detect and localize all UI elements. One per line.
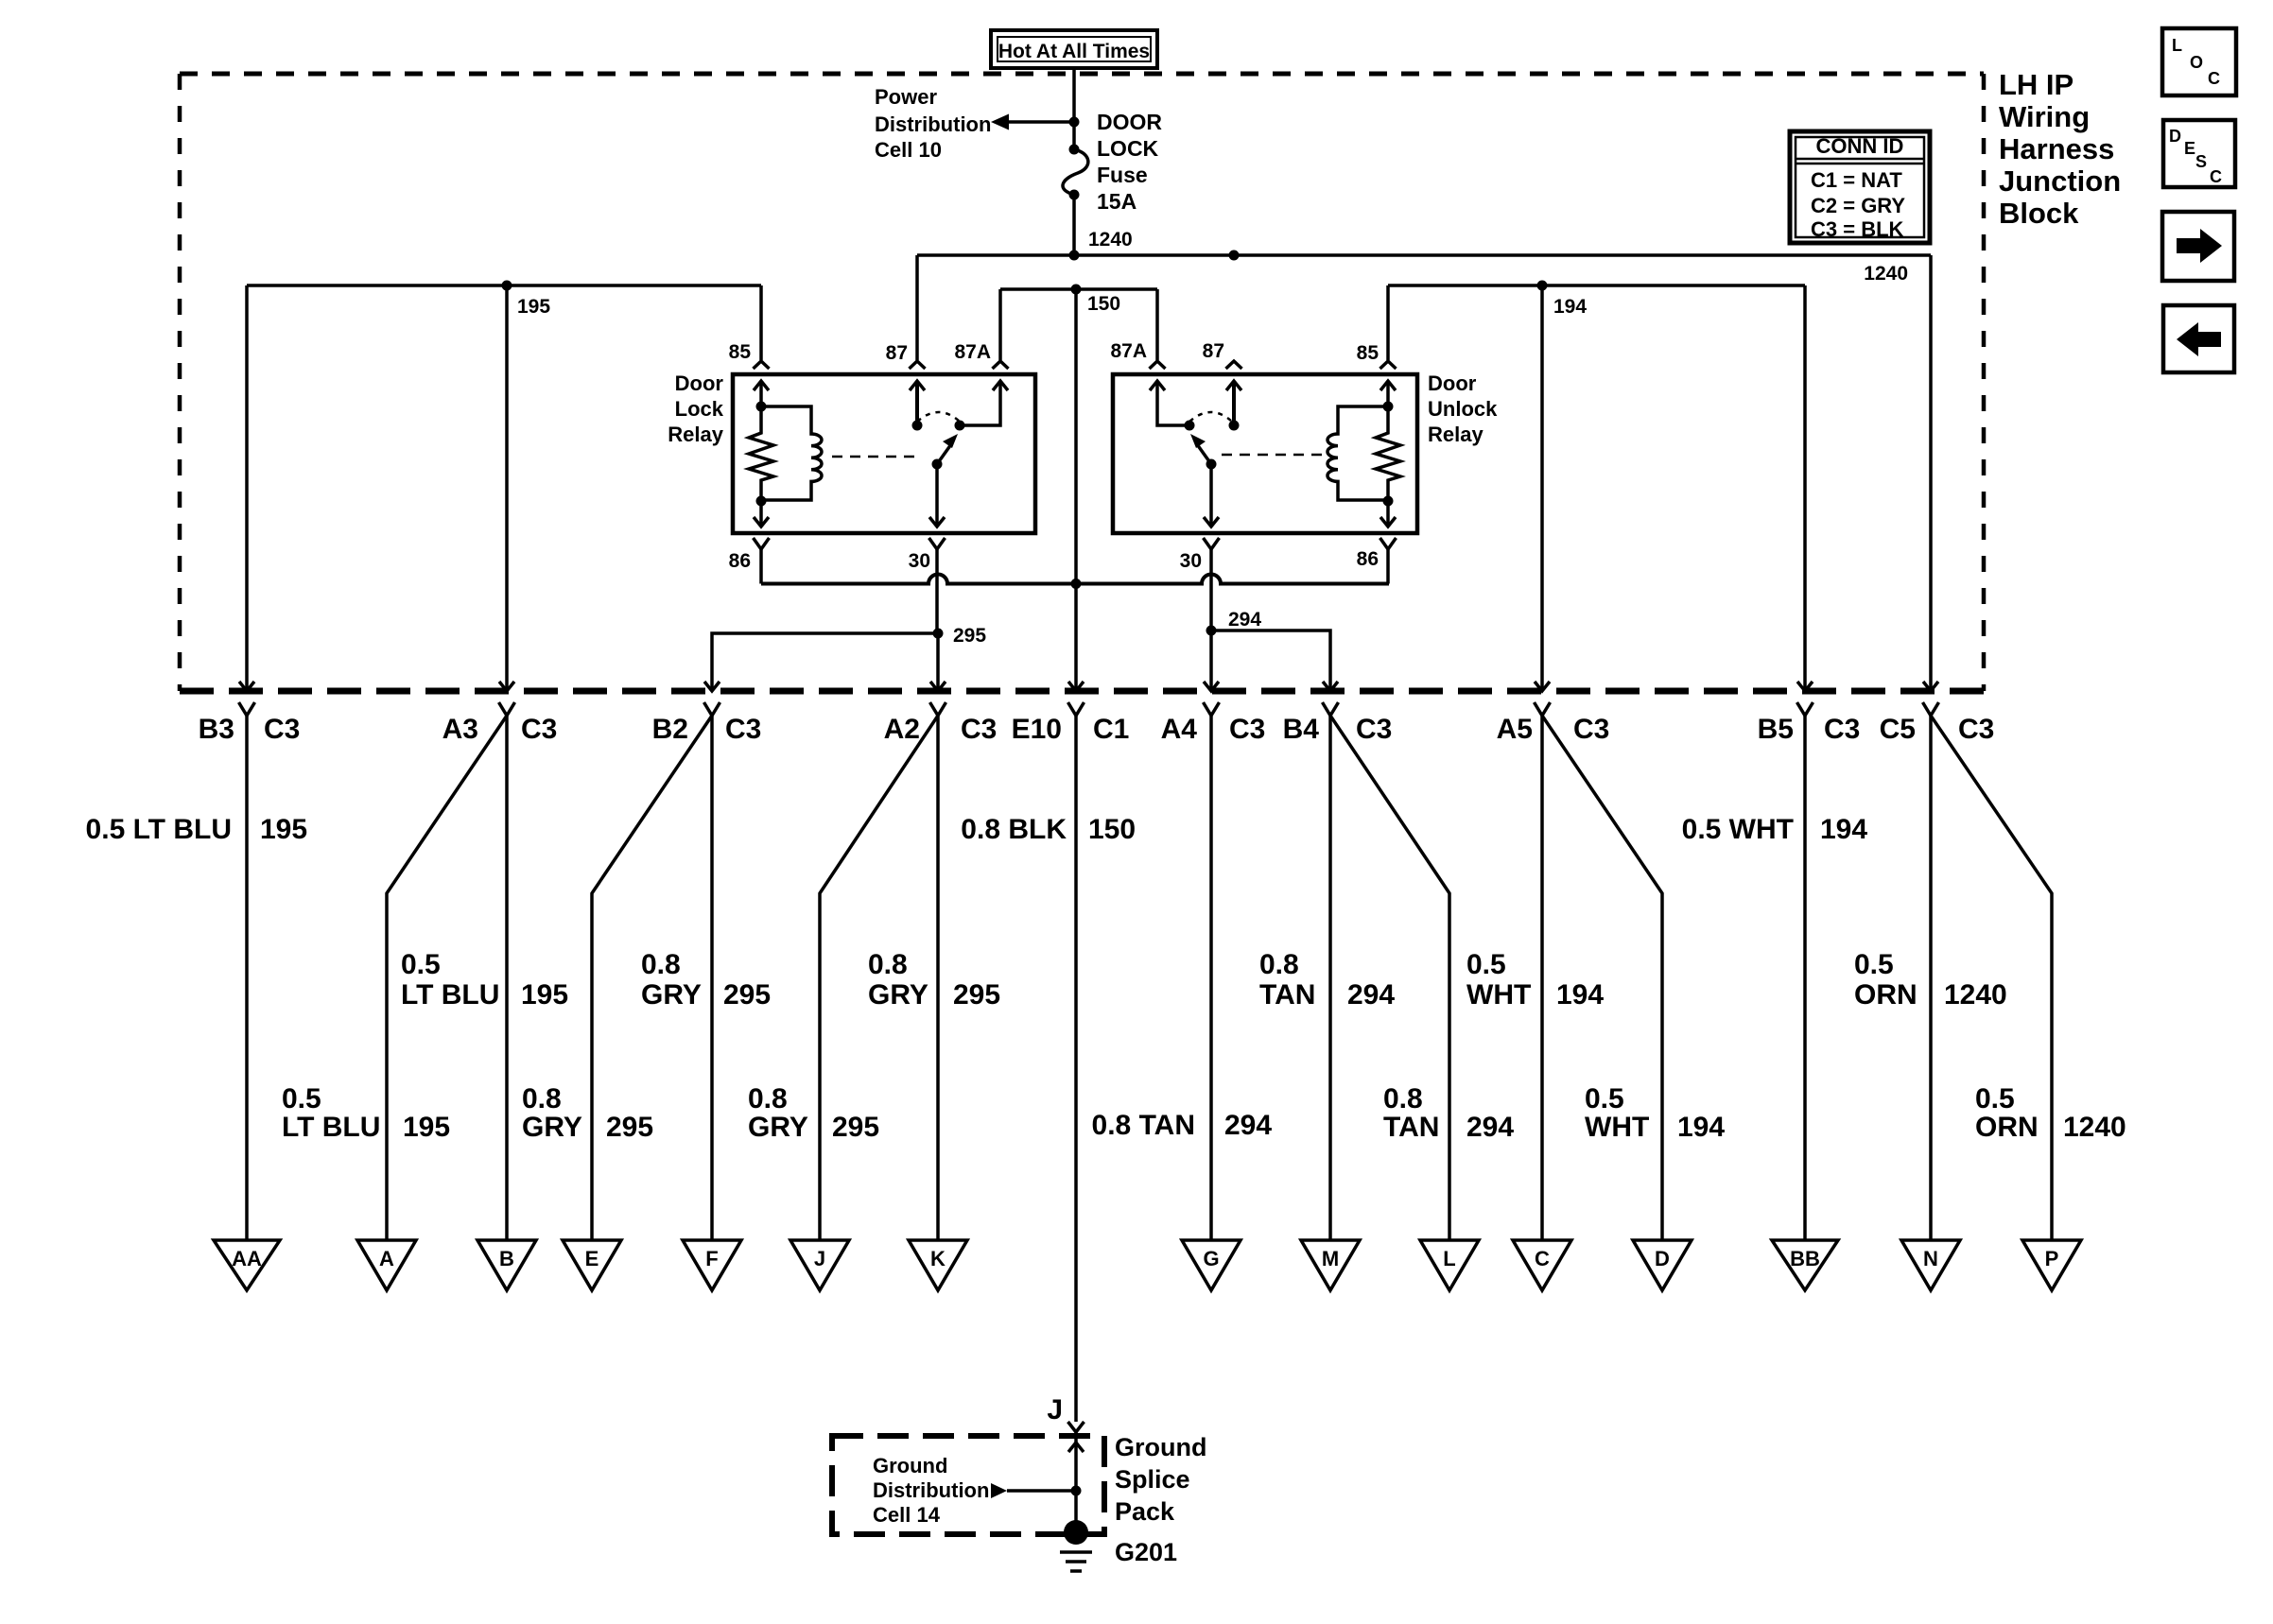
wire from Hot At All Times to fuse	[1072, 68, 1076, 149]
svg-text:A2: A2	[884, 714, 920, 745]
label wire 0.5 WHT 194 at triangle C wire	[1466, 949, 1604, 1011]
inductor unlock relay coil	[1327, 406, 1388, 500]
svg-text:C3: C3	[1356, 714, 1392, 745]
svg-text:87: 87	[1203, 340, 1224, 362]
svg-text:30: 30	[1180, 550, 1202, 572]
svg-text:C1: C1	[1093, 714, 1129, 745]
pin 30 lock relay fork	[929, 538, 946, 549]
destination triangle N	[1901, 1240, 1960, 1290]
wire 194 right drop to connector B5	[1803, 285, 1807, 691]
svg-text:AA: AA	[232, 1247, 262, 1270]
connector pin B5 fork	[1797, 702, 1813, 716]
wire 295 horizontal to connector B2	[712, 633, 938, 691]
pin 87A lock relay connector chevron	[993, 361, 1009, 369]
svg-text:0.8: 0.8	[748, 1083, 788, 1114]
pin 87 unlock relay connector chevron	[1226, 361, 1242, 369]
label wire 0.5 LT BLU 195 at triangle A wire	[282, 1083, 450, 1143]
arrow to Power Distribution Cell 10	[991, 114, 1074, 130]
junction block dashed border - left	[178, 74, 182, 691]
pin 30 lock relay internal arrow	[929, 464, 945, 527]
pin 87 lock relay connector chevron	[910, 361, 926, 369]
svg-text:DOOR: DOOR	[1097, 110, 1162, 134]
svg-text:0.8: 0.8	[1259, 949, 1299, 980]
svg-text:C3: C3	[1824, 714, 1860, 745]
svg-text:0.5: 0.5	[1975, 1083, 2015, 1114]
svg-text:G: G	[1203, 1247, 1219, 1270]
svg-text:194: 194	[1556, 979, 1604, 1011]
wire A2 straight to triangle K	[936, 716, 940, 1240]
svg-text:ORN: ORN	[1975, 1112, 2039, 1143]
svg-text:Cell 14: Cell 14	[873, 1503, 941, 1527]
svg-text:0.8 TAN: 0.8 TAN	[1092, 1110, 1195, 1141]
wire splice 295 down to connector A2	[936, 633, 940, 691]
svg-text:294: 294	[1466, 1112, 1514, 1143]
pin 86 lock relay fork	[754, 538, 770, 549]
svg-text:194: 194	[1553, 296, 1587, 318]
svg-text:C: C	[1535, 1247, 1550, 1270]
svg-text:0.8 BLK: 0.8 BLK	[961, 814, 1067, 845]
svg-text:295: 295	[953, 979, 1000, 1011]
arrow from Ground Distribution Cell 14	[991, 1483, 1076, 1498]
inductor lock relay coil	[761, 406, 822, 500]
ground G201 symbol	[1060, 1520, 1092, 1571]
label wire 0.8 GRY 295 at triangle F wire	[641, 949, 771, 1011]
svg-text:LOCK: LOCK	[1097, 136, 1159, 161]
svg-text:0.8: 0.8	[1383, 1083, 1423, 1114]
svg-text:30: 30	[909, 550, 930, 572]
svg-text:G201: G201	[1115, 1538, 1177, 1566]
label wire 0.8 GRY 295 at triangle K wire	[868, 949, 1000, 1011]
label wire 0.8 GRY 295 at triangle E wire	[522, 1083, 653, 1143]
svg-text:L: L	[2172, 36, 2182, 55]
wire lock pin30 down to splice 295	[935, 549, 939, 633]
svg-text:GRY: GRY	[748, 1112, 808, 1143]
connector pin B2 fork	[704, 702, 720, 716]
label Door Lock Relay	[668, 371, 723, 446]
LOC legend box	[2162, 28, 2236, 95]
connector pin A4 fork	[1204, 702, 1220, 716]
relay K2 Door Unlock Relay box	[1113, 374, 1417, 533]
svg-text:Unlock: Unlock	[1428, 397, 1498, 421]
svg-text:Ground: Ground	[1115, 1433, 1206, 1461]
connector pin A2 arrow into junction block edge	[930, 682, 946, 691]
ground splice pack dashed box	[832, 1436, 1104, 1534]
svg-text:C2 = GRY: C2 = GRY	[1811, 194, 1905, 217]
label Ground Distribution Cell 14	[873, 1454, 989, 1527]
label wire 0.5 ORN 1240 at triangle P wire	[1975, 1083, 2126, 1143]
label wire 0.5 WHT 194 at B5	[1682, 814, 1868, 845]
dashed link unlock coil to switch	[1222, 454, 1324, 457]
connector pin A5 arrow into junction block edge	[1535, 682, 1550, 691]
svg-text:0.5 WHT: 0.5 WHT	[1682, 814, 1794, 845]
svg-text:Distribution: Distribution	[875, 112, 991, 136]
svg-text:LH IP: LH IP	[1999, 68, 2073, 101]
resistor lock relay	[749, 406, 773, 501]
CONN ID legend table	[1790, 131, 1930, 243]
svg-text:TAN: TAN	[1383, 1112, 1439, 1143]
wire 194 bracket horizontal	[1388, 284, 1805, 287]
svg-text:Power: Power	[875, 85, 937, 109]
svg-text:0.5: 0.5	[1854, 949, 1894, 980]
node 150 junction	[1071, 285, 1082, 295]
wire A3 straight to triangle B	[505, 716, 509, 1240]
destination triangle K	[909, 1240, 967, 1290]
pin 86 unlock relay fork	[1380, 538, 1397, 549]
svg-text:Ground: Ground	[873, 1454, 947, 1477]
svg-text:150: 150	[1088, 814, 1136, 845]
connector pin A3 fork	[499, 702, 515, 716]
DESC legend box	[2163, 120, 2235, 187]
connector pin B3 fork	[239, 702, 255, 716]
wire B2 diagonal to triangle E	[592, 716, 712, 1240]
wire 150 vertical to ground circuit	[1074, 289, 1078, 691]
svg-text:N: N	[1923, 1247, 1938, 1270]
lock relay movable contact arm	[937, 434, 958, 464]
pin 87A lock relay internal arrow and contact	[960, 381, 1008, 425]
dashed link lock coil to switch	[832, 456, 920, 458]
node splice junction	[1071, 1486, 1082, 1496]
node 1240 bus / unlock 87 junction	[1229, 251, 1240, 261]
svg-text:C3: C3	[961, 714, 997, 745]
svg-text:WHT: WHT	[1585, 1112, 1649, 1143]
node lock coil bottom	[756, 496, 767, 507]
svg-text:195: 195	[403, 1112, 450, 1143]
connector pin B4 fork	[1323, 702, 1339, 716]
svg-text:294: 294	[1224, 1110, 1272, 1141]
node 194 junction to A5	[1537, 281, 1548, 291]
svg-text:87A: 87A	[954, 341, 991, 363]
destination triangle L	[1420, 1240, 1479, 1290]
destination triangle A	[357, 1240, 416, 1290]
connector pin E10 arrow into junction block edge	[1068, 682, 1084, 691]
pin 85 unlock relay connector chevron	[1380, 361, 1397, 369]
svg-text:C3: C3	[264, 714, 300, 745]
wire 194 drop to connector A5	[1540, 285, 1544, 691]
svg-text:D: D	[2169, 127, 2181, 146]
wire A2 diagonal to triangle J	[820, 716, 938, 1240]
fuse F - DOOR LOCK Fuse 15A	[1063, 145, 1088, 200]
svg-text:F: F	[705, 1247, 718, 1270]
wire A4 to triangle G	[1209, 716, 1213, 1240]
destination triangle F	[683, 1240, 741, 1290]
svg-text:Junction: Junction	[1999, 164, 2121, 198]
svg-text:J: J	[1047, 1394, 1063, 1425]
junction block dashed border - top	[180, 72, 1984, 77]
wire C5 straight to triangle N	[1929, 716, 1933, 1240]
svg-text:B: B	[499, 1247, 514, 1270]
destination triangle E	[563, 1240, 621, 1290]
svg-text:Pack: Pack	[1115, 1497, 1175, 1526]
svg-text:C: C	[2208, 69, 2220, 88]
svg-text:294: 294	[1228, 609, 1261, 631]
svg-text:0.5: 0.5	[282, 1083, 321, 1114]
svg-text:C3: C3	[1573, 714, 1609, 745]
node unlock coil top	[1383, 402, 1394, 412]
svg-text:GRY: GRY	[641, 979, 702, 1011]
svg-text:A5: A5	[1497, 714, 1533, 745]
wire 194 left drop to unlock relay pin 85	[1386, 285, 1390, 360]
svg-text:E: E	[585, 1247, 599, 1270]
svg-text:D: D	[1655, 1247, 1670, 1270]
svg-text:195: 195	[260, 814, 307, 845]
wire 150 right drop to unlock relay pin 87A	[1155, 289, 1159, 360]
label wire 0.5 WHT 194 at triangle D wire	[1585, 1083, 1725, 1143]
wire 195 horizontal	[247, 284, 761, 287]
connector pin A5 fork	[1535, 702, 1551, 716]
label Door Unlock Relay	[1428, 371, 1498, 446]
svg-text:C3 = BLK: C3 = BLK	[1811, 217, 1904, 241]
svg-text:Relay: Relay	[668, 423, 723, 446]
svg-text:E: E	[2184, 139, 2195, 158]
wire E10 ground wire 150 down to splice pack	[1074, 716, 1078, 1422]
pin 87A unlock relay connector chevron	[1150, 361, 1166, 369]
node 1240 bus / fuse junction	[1069, 251, 1080, 261]
prev-page arrow box	[2163, 305, 2234, 372]
svg-text:Fuse: Fuse	[1097, 163, 1148, 187]
destination triangle B	[477, 1240, 536, 1290]
node unlock coil bottom	[1383, 496, 1394, 507]
svg-text:B4: B4	[1283, 714, 1320, 745]
pin 85 lock relay internal arrow	[754, 381, 769, 406]
label wire 0.5 LT BLU 195 at B3	[86, 814, 308, 845]
node lock contact 87	[912, 421, 923, 431]
node power distribution tap	[1069, 117, 1080, 128]
pin 30 unlock relay fork	[1204, 538, 1220, 549]
wire A5 diagonal to triangle D	[1542, 716, 1662, 1240]
svg-text:A3: A3	[442, 714, 478, 745]
svg-text:BB: BB	[1790, 1247, 1820, 1270]
label wire 0.5 ORN 1240 at triangle N wire	[1854, 949, 2007, 1011]
node lock coil top	[756, 402, 767, 412]
wire 195 left drop to connector B3	[245, 285, 249, 691]
node unlock contact 87	[1229, 421, 1240, 431]
svg-text:M: M	[1322, 1247, 1339, 1270]
svg-text:Wiring: Wiring	[1999, 100, 2090, 133]
svg-text:Harness: Harness	[1999, 132, 2114, 165]
label Power Distribution Cell 10	[875, 85, 991, 162]
pin 86 lock relay internal arrow	[754, 501, 769, 527]
connector pin A4 arrow into junction block edge	[1204, 682, 1219, 691]
svg-text:194: 194	[1820, 814, 1867, 845]
svg-text:J: J	[814, 1247, 825, 1270]
svg-text:GRY: GRY	[868, 979, 928, 1011]
wire 150 bracket horizontal	[1000, 287, 1157, 291]
node splice 295	[933, 629, 944, 639]
wire 294 horizontal to connector B4	[1211, 631, 1330, 691]
svg-text:86: 86	[1357, 548, 1379, 570]
svg-text:87: 87	[886, 342, 908, 364]
pin 85 lock relay connector chevron	[754, 361, 770, 369]
svg-text:295: 295	[606, 1112, 653, 1143]
svg-text:O: O	[2190, 53, 2203, 72]
pin 87 unlock relay internal arrow	[1226, 381, 1241, 425]
svg-text:C3: C3	[1229, 714, 1265, 745]
svg-text:B5: B5	[1758, 714, 1794, 745]
svg-text:85: 85	[729, 341, 752, 363]
wire A5 straight to triangle C	[1540, 716, 1544, 1240]
wire splice to ground	[1074, 1491, 1078, 1527]
svg-text:Relay: Relay	[1428, 423, 1484, 446]
svg-text:195: 195	[521, 979, 568, 1011]
svg-text:1240: 1240	[1088, 229, 1133, 251]
wire B3 to triangle AA	[245, 716, 249, 1240]
dashed arc lock switch throw	[917, 412, 960, 422]
pin 86 unlock relay internal arrow	[1380, 501, 1396, 527]
pin 87 lock relay internal arrow	[910, 381, 925, 425]
node 86 bus to ground wire 150	[1071, 579, 1082, 589]
wire A3 diagonal to triangle A	[387, 716, 507, 1240]
label wire 0.8 BLK 150 at E10	[961, 814, 1136, 845]
svg-text:1240: 1240	[2063, 1112, 2126, 1143]
node splice 294	[1206, 626, 1217, 636]
svg-text:0.5: 0.5	[1585, 1083, 1624, 1114]
svg-text:C3: C3	[1958, 714, 1994, 745]
wire B4 straight to triangle M	[1328, 716, 1332, 1240]
svg-text:Distribution: Distribution	[873, 1478, 989, 1502]
connector pin B2 arrow into junction block edge	[704, 682, 720, 691]
unlock relay movable contact arm	[1190, 434, 1211, 464]
destination triangle C	[1513, 1240, 1571, 1290]
svg-text:Splice: Splice	[1115, 1465, 1190, 1494]
svg-text:ORN: ORN	[1854, 979, 1917, 1011]
wire 86 bus with hops over pin30 wires	[761, 549, 1389, 584]
svg-text:195: 195	[517, 296, 550, 318]
wire 195 right drop to lock relay pin 85	[759, 285, 763, 360]
connector pin B3 arrow into junction block edge	[239, 682, 254, 691]
connector pin A2 fork	[930, 702, 946, 716]
svg-text:295: 295	[832, 1112, 879, 1143]
wire 150 left drop to lock relay pin 87A	[998, 289, 1002, 360]
svg-text:85: 85	[1357, 342, 1379, 364]
svg-text:0.5 LT BLU: 0.5 LT BLU	[86, 814, 232, 845]
svg-text:294: 294	[1347, 979, 1395, 1011]
svg-text:K: K	[930, 1247, 946, 1270]
pin 30 unlock relay internal arrow	[1204, 464, 1219, 527]
label DOOR LOCK Fuse 15A	[1097, 110, 1162, 214]
dashed arc unlock switch throw	[1189, 412, 1232, 422]
label wire 0.8 TAN 294 at triangle M wire	[1259, 949, 1395, 1011]
destination triangle G	[1182, 1240, 1241, 1290]
svg-text:C3: C3	[725, 714, 761, 745]
wire J into ground splice pack	[1074, 1432, 1078, 1491]
resistor unlock relay	[1376, 406, 1400, 501]
svg-text:1240: 1240	[1864, 263, 1908, 285]
svg-text:194: 194	[1677, 1112, 1725, 1143]
svg-text:TAN: TAN	[1259, 979, 1315, 1011]
node unlock contact 87A	[1185, 421, 1195, 431]
destination triangle D	[1633, 1240, 1692, 1290]
destination triangle J	[790, 1240, 849, 1290]
wire 1240 bus horizontal	[917, 253, 1931, 257]
pin 87A unlock relay internal arrow and contact	[1150, 381, 1189, 425]
label Ground Splice Pack	[1115, 1433, 1206, 1526]
wire 1240 bus right drop to connector C5	[1929, 255, 1933, 691]
svg-text:LT BLU: LT BLU	[401, 979, 499, 1011]
wire splice 294 down to connector A4	[1209, 631, 1213, 691]
svg-text:C1 = NAT: C1 = NAT	[1811, 168, 1902, 192]
junction block dashed border - bottom	[180, 688, 1984, 695]
svg-text:Door: Door	[675, 371, 724, 395]
wire 195 drop to connector A3	[505, 285, 509, 691]
label wire 0.8 GRY 295 at triangle J wire	[748, 1083, 879, 1143]
svg-text:C: C	[2210, 167, 2222, 186]
wire fuse to 1240 bus	[1072, 195, 1076, 255]
svg-text:E10: E10	[1012, 714, 1062, 745]
svg-text:WHT: WHT	[1466, 979, 1531, 1011]
svg-text:1240: 1240	[1944, 979, 2007, 1011]
svg-text:Block: Block	[1999, 197, 2079, 230]
svg-text:295: 295	[953, 625, 986, 647]
svg-text:S: S	[2195, 152, 2207, 171]
label wire 0.8 TAN 294 at triangle L wire	[1383, 1083, 1514, 1143]
node 195 junction to A3	[502, 281, 512, 291]
relay K1 Door Lock Relay box	[733, 374, 1035, 533]
svg-text:A4: A4	[1161, 714, 1198, 745]
svg-text:0.5: 0.5	[401, 949, 441, 980]
svg-text:Lock: Lock	[675, 397, 724, 421]
wire C5 diagonal to triangle P	[1931, 716, 2052, 1240]
junction block dashed border - right	[1982, 74, 1987, 691]
connector pin C5 fork	[1923, 702, 1939, 716]
wire B2 straight to triangle F	[710, 716, 714, 1240]
connector pin B4 arrow into junction block edge	[1323, 682, 1338, 691]
pin 85 unlock relay internal arrow	[1380, 381, 1396, 406]
connector J fork	[1068, 1422, 1084, 1432]
connector pin A3 arrow into junction block edge	[499, 682, 514, 691]
svg-text:0.5: 0.5	[1466, 949, 1506, 980]
svg-text:0.8: 0.8	[641, 949, 681, 980]
svg-text:C3: C3	[521, 714, 557, 745]
svg-text:Door: Door	[1428, 371, 1477, 395]
wire 1240 bus left drop to lock relay pin 87	[915, 255, 919, 360]
next-page arrow box	[2162, 212, 2234, 281]
svg-text:150: 150	[1087, 293, 1120, 315]
destination triangle AA	[214, 1240, 280, 1290]
svg-text:L: L	[1443, 1247, 1455, 1270]
wire B5 to triangle BB	[1803, 716, 1807, 1240]
connector pin C5 arrow into junction block edge	[1923, 682, 1938, 691]
svg-text:87A: 87A	[1110, 340, 1147, 362]
destination triangle BB	[1772, 1240, 1838, 1290]
svg-text:A: A	[379, 1247, 394, 1270]
svg-text:86: 86	[729, 550, 751, 572]
connector pin B5 arrow into junction block edge	[1797, 682, 1813, 691]
svg-text:CONN ID: CONN ID	[1816, 134, 1904, 158]
wire unlock pin30 down to splice 294	[1209, 549, 1213, 631]
label LH IP Wiring Harness Junction Block	[1999, 68, 2121, 230]
node unlock switch pivot	[1206, 459, 1217, 470]
svg-text:0.8: 0.8	[522, 1083, 562, 1114]
svg-text:B3: B3	[199, 714, 234, 745]
svg-text:P: P	[2045, 1247, 2059, 1270]
svg-text:15A: 15A	[1097, 189, 1136, 214]
svg-text:Hot At All Times: Hot At All Times	[998, 41, 1150, 62]
svg-text:B2: B2	[652, 714, 688, 745]
svg-text:Cell 10: Cell 10	[875, 138, 942, 162]
svg-text:C5: C5	[1880, 714, 1916, 745]
destination triangle M	[1301, 1240, 1360, 1290]
svg-text:295: 295	[723, 979, 771, 1011]
connector pin E10 fork	[1068, 702, 1084, 716]
svg-text:GRY: GRY	[522, 1112, 582, 1143]
svg-text:0.8: 0.8	[868, 949, 908, 980]
svg-text:LT BLU: LT BLU	[282, 1112, 380, 1143]
destination triangle P	[2022, 1240, 2081, 1290]
wire B4 diagonal to triangle L	[1330, 716, 1449, 1240]
label wire 0.5 LT BLU 195 at triangle B wire	[401, 949, 568, 1011]
arrow into splice pack	[1068, 1443, 1084, 1452]
power source box "Hot At All Times"	[991, 30, 1157, 68]
